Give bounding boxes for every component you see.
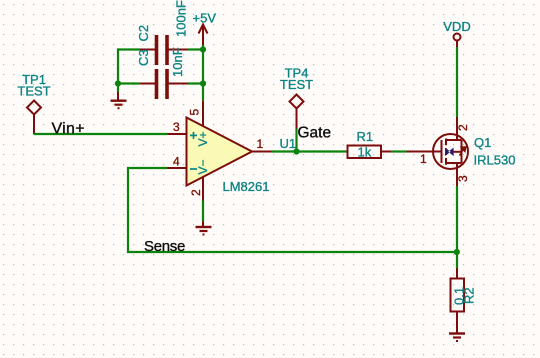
- wire Vin+ net: [34, 133, 168, 135]
- capacitor C3: [136, 47, 188, 99]
- junction left rail: [115, 80, 121, 86]
- channel bar: [445, 139, 447, 165]
- pin name -: [190, 168, 197, 170]
- op-amp U1 LM8261: [168, 101, 297, 201]
- wire cap left rail: [118, 50, 140, 93]
- source arrow: [445, 148, 453, 156]
- junction Sense R2: [454, 249, 460, 255]
- wire Gate net: [272, 150, 348, 152]
- svg-text:C3: C3: [136, 49, 151, 66]
- svg-text:V+: V+: [196, 131, 210, 146]
- svg-text:+5V: +5V: [193, 11, 217, 26]
- junction +5V C3: [200, 80, 206, 86]
- svg-text:10nF: 10nF: [170, 47, 185, 77]
- svg-text:V−: V−: [196, 159, 210, 174]
- pin name +: [190, 132, 197, 139]
- power +5V: [193, 11, 217, 46]
- svg-text:2: 2: [189, 189, 203, 196]
- transistor Q1 IRL530: [407, 117, 516, 186]
- gate bar: [441, 140, 443, 163]
- ground (under op-amp): [196, 201, 212, 235]
- wire source to R2: [456, 186, 458, 268]
- svg-text:1: 1: [420, 152, 427, 166]
- svg-text:Sense: Sense: [144, 238, 185, 255]
- svg-text:3: 3: [173, 120, 180, 134]
- svg-text:Q1: Q1: [474, 135, 491, 150]
- drain path: [446, 117, 462, 140]
- wire VDD to drain: [456, 47, 458, 117]
- ground (under R2): [449, 334, 465, 342]
- body diode arrow: [460, 147, 466, 156]
- resistor R2: [451, 268, 477, 333]
- svg-text:Gate: Gate: [298, 125, 332, 142]
- svg-text:Vin+: Vin+: [52, 121, 85, 138]
- capacitor C2: [136, 0, 188, 65]
- svg-text:TEST: TEST: [280, 77, 313, 92]
- source path: [446, 163, 462, 186]
- svg-text:5: 5: [188, 109, 202, 116]
- body bar: [461, 140, 463, 163]
- svg-text:3: 3: [456, 175, 470, 182]
- svg-text:1: 1: [257, 137, 264, 151]
- gate pin: [407, 151, 442, 153]
- wire R1 to Q1 gate: [391, 150, 407, 152]
- wire +5V rail: [188, 45, 203, 101]
- svg-text:U1: U1: [280, 136, 297, 151]
- test point TP1: [17, 72, 50, 134]
- svg-text:IRL530: IRL530: [474, 153, 516, 168]
- power VDD: [443, 19, 470, 47]
- junction Gate TP4: [293, 148, 299, 154]
- middle line: [453, 151, 462, 153]
- junction +5V C2: [200, 46, 206, 52]
- svg-text:4: 4: [173, 155, 180, 169]
- test point TP4: [280, 66, 313, 152]
- svg-text:R2: R2: [462, 287, 477, 304]
- svg-text:TEST: TEST: [17, 84, 50, 99]
- svg-text:VDD: VDD: [443, 19, 470, 34]
- svg-text:2: 2: [456, 124, 470, 131]
- ground (under caps): [111, 92, 127, 108]
- wire Sense net: [128, 168, 457, 252]
- svg-text:C2: C2: [136, 25, 151, 42]
- svg-text:100nF: 100nF: [173, 0, 188, 37]
- svg-text:R1: R1: [357, 129, 374, 144]
- svg-text:LM8261: LM8261: [223, 179, 270, 194]
- svg-text:1k: 1k: [358, 145, 372, 160]
- resistor R1: [348, 129, 392, 160]
